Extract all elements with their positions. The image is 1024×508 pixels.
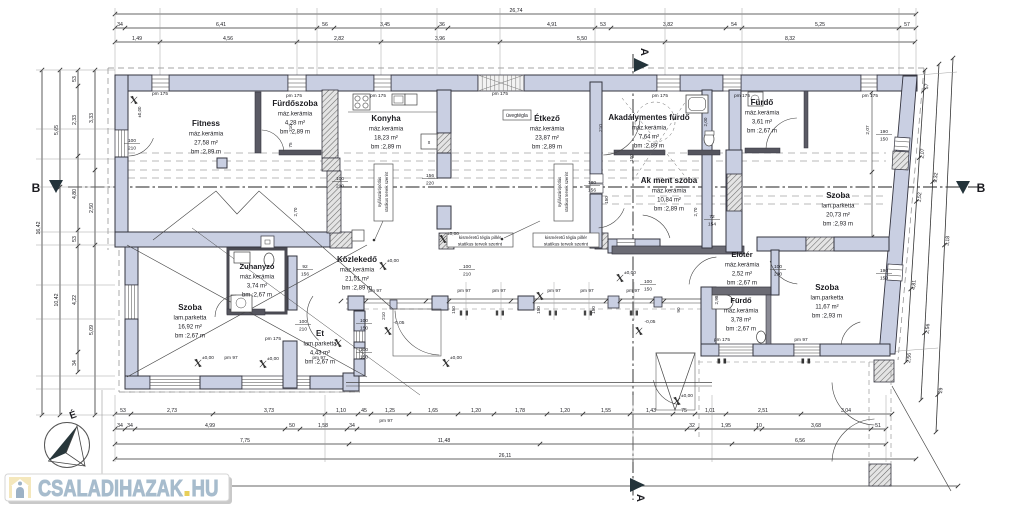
svg-text:210: 210 [381, 312, 386, 320]
svg-text:1,58: 1,58 [318, 423, 328, 429]
svg-text:34: 34 [72, 360, 78, 366]
svg-text:150: 150 [880, 276, 888, 282]
svg-text:kisméretű tégla pillér: kisméretű tégla pillér [545, 235, 588, 240]
svg-text:pm 175: pm 175 [286, 93, 302, 99]
svg-text:pm 97: pm 97 [379, 418, 393, 424]
svg-text:75: 75 [288, 142, 293, 148]
svg-text:18,23 m²: 18,23 m² [374, 136, 398, 142]
svg-text:nyílászárópótlás: nyílászárópótlás [377, 177, 382, 207]
svg-text:A: A [634, 494, 646, 502]
svg-text:pm 175: pm 175 [492, 91, 508, 97]
svg-text:Szoba: Szoba [815, 283, 839, 292]
svg-text:210: 210 [288, 124, 293, 132]
svg-text:190: 190 [880, 268, 888, 274]
svg-text:1,65: 1,65 [428, 408, 438, 414]
svg-text:1,10: 1,10 [336, 408, 346, 414]
svg-text:16,42: 16,42 [36, 221, 42, 234]
svg-text:2,70: 2,70 [293, 207, 298, 216]
svg-text:pm 175: pm 175 [265, 336, 281, 342]
svg-text:bm :2,89 m: bm :2,89 m [371, 145, 401, 151]
svg-text:3,74 m²: 3,74 m² [247, 284, 267, 290]
svg-text:Ak ment szoba: Ak ment szoba [641, 176, 698, 185]
svg-text:150: 150 [536, 306, 541, 314]
svg-text:3,82: 3,82 [663, 22, 673, 28]
svg-text:27,58 m²: 27,58 m² [194, 141, 218, 147]
svg-text:150: 150 [360, 355, 368, 361]
svg-text:máz.kerámia: máz.kerámia [724, 309, 759, 315]
svg-text:pm 97: pm 97 [312, 355, 326, 361]
svg-text:pm 97: pm 97 [547, 288, 561, 294]
svg-text:100: 100 [774, 264, 782, 270]
svg-text:bm :2,89 m: bm :2,89 m [191, 150, 221, 156]
svg-text:3,68: 3,68 [811, 423, 821, 429]
svg-text:26,11: 26,11 [499, 453, 512, 459]
svg-text:±0,00: ±0,00 [447, 231, 459, 237]
svg-text:pm 175: pm 175 [862, 93, 878, 99]
svg-text:34: 34 [127, 423, 133, 429]
svg-text:54: 54 [731, 22, 737, 28]
svg-text:4,22: 4,22 [72, 295, 78, 305]
svg-text:statikus tervek szerint: statikus tervek szerint [544, 242, 589, 247]
svg-text:1,49: 1,49 [132, 36, 142, 42]
svg-text:20,73 m²: 20,73 m² [826, 213, 850, 219]
svg-text:Szoba: Szoba [178, 303, 202, 312]
svg-text:Konyha: Konyha [371, 114, 401, 123]
svg-text:bm :2,93 m: bm :2,93 m [812, 314, 842, 320]
svg-text:220: 220 [426, 181, 434, 187]
svg-text:pm 97: pm 97 [580, 288, 594, 294]
svg-text:±0,00: ±0,00 [624, 270, 636, 276]
svg-text:180: 180 [588, 180, 596, 186]
svg-text:1,52: 1,52 [917, 192, 924, 203]
svg-text:100: 100 [360, 347, 368, 353]
svg-text:2,00: 2,00 [703, 117, 708, 126]
svg-text:10,84 m²: 10,84 m² [657, 198, 681, 204]
svg-text:1,25: 1,25 [385, 408, 395, 414]
svg-text:7,75: 7,75 [240, 438, 250, 444]
svg-text:-0,05: -0,05 [394, 320, 405, 326]
svg-text:36: 36 [439, 22, 445, 28]
svg-text:21,51 m²: 21,51 m² [345, 277, 369, 283]
svg-text:156: 156 [426, 173, 434, 179]
svg-text:57: 57 [904, 22, 910, 28]
svg-text:4,99: 4,99 [205, 423, 215, 429]
svg-text:máz.kerámia: máz.kerámia [278, 112, 313, 118]
svg-text:statikus tervek szerint: statikus tervek szerint [458, 242, 503, 247]
svg-text:±0,00: ±0,00 [202, 355, 214, 361]
svg-text:bm :2,67 m: bm :2,67 m [747, 129, 777, 135]
svg-text:210: 210 [128, 146, 136, 152]
svg-text:190: 190 [880, 129, 888, 135]
svg-text:HU: HU [192, 475, 219, 501]
svg-text:100: 100 [299, 319, 307, 325]
svg-text:150: 150 [644, 287, 652, 293]
svg-text:±0,00: ±0,00 [387, 258, 399, 264]
svg-text:bm :2,93 m: bm :2,93 m [823, 222, 853, 228]
svg-text:1,01: 1,01 [705, 408, 715, 414]
svg-text:72: 72 [709, 214, 715, 220]
svg-text:pm 97: pm 97 [626, 288, 640, 294]
svg-text:Étkező: Étkező [534, 114, 560, 123]
svg-text:210: 210 [336, 184, 344, 190]
svg-text:máz.kerámia: máz.kerámia [530, 127, 565, 133]
svg-text:51: 51 [875, 423, 881, 429]
svg-text:bm :2,89 m: bm :2,89 m [654, 207, 684, 213]
svg-text:150: 150 [880, 137, 888, 143]
svg-text:2,07: 2,07 [865, 125, 871, 135]
svg-text:lam.parketta: lam.parketta [173, 316, 207, 322]
svg-text:210: 210 [774, 272, 782, 278]
svg-text:1,20: 1,20 [560, 408, 570, 414]
svg-text:Fitness: Fitness [192, 119, 221, 128]
svg-text:B: B [32, 181, 41, 195]
svg-text:34: 34 [117, 22, 123, 28]
svg-text:45: 45 [361, 408, 367, 414]
svg-text:4,56: 4,56 [223, 36, 233, 42]
svg-text:pm 97: pm 97 [368, 288, 382, 294]
svg-text:2,51: 2,51 [758, 408, 768, 414]
svg-text:11,48: 11,48 [438, 438, 451, 444]
svg-text:156: 156 [301, 272, 309, 278]
svg-text:100: 100 [336, 176, 344, 182]
svg-text:pm 175: pm 175 [714, 337, 730, 343]
svg-text:Akadálymentes fürdő: Akadálymentes fürdő [608, 113, 689, 122]
svg-text:pm 175: pm 175 [152, 91, 168, 97]
svg-text:-0,05: -0,05 [645, 319, 656, 325]
svg-text:bm :2,89 m: bm :2,89 m [634, 144, 664, 150]
svg-text:32: 32 [689, 423, 695, 429]
svg-text:53: 53 [72, 76, 78, 82]
svg-text:bm :2,89 m: bm :2,89 m [532, 145, 562, 151]
svg-text:8,32: 8,32 [785, 36, 795, 42]
svg-text:150: 150 [451, 306, 456, 314]
svg-text:34: 34 [349, 423, 355, 429]
svg-text:7,64 m²: 7,64 m² [639, 135, 659, 141]
svg-text:10: 10 [756, 423, 762, 429]
svg-text:bm :2,67 m: bm :2,67 m [175, 334, 205, 340]
svg-text:máz.kerámia: máz.kerámia [652, 189, 687, 195]
svg-text:100: 100 [360, 318, 368, 324]
svg-text:3,61 m²: 3,61 m² [752, 120, 772, 126]
svg-text:2,98: 2,98 [714, 295, 719, 304]
svg-text:CSALADIHAZAK: CSALADIHAZAK [38, 475, 183, 501]
svg-text:kisméretű tégla pillér: kisméretű tégla pillér [459, 235, 502, 240]
svg-text:210: 210 [299, 327, 307, 333]
svg-text:máz.kerámia: máz.kerámia [632, 126, 667, 132]
svg-text:4,80: 4,80 [72, 189, 78, 199]
svg-text:pm 97: pm 97 [492, 288, 506, 294]
svg-text:nyílászárópótlás: nyílászárópótlás [557, 177, 562, 207]
svg-text:máz.kerámia: máz.kerámia [745, 111, 780, 117]
svg-text:±0,00: ±0,00 [267, 356, 279, 362]
svg-text:5,50: 5,50 [577, 36, 587, 42]
svg-text:154: 154 [708, 222, 716, 228]
svg-text:pm 175: pm 175 [652, 93, 668, 99]
svg-text:máz.kerámia: máz.kerámia [340, 268, 375, 274]
svg-text:5,09: 5,09 [89, 325, 95, 335]
svg-text:bm :2,67 m: bm :2,67 m [726, 327, 756, 333]
svg-text:máz.kerámia: máz.kerámia [369, 127, 404, 133]
svg-text:9,32: 9,32 [933, 172, 940, 183]
svg-text:10,42: 10,42 [54, 293, 60, 306]
svg-text:±0,00: ±0,00 [450, 355, 462, 361]
svg-text:1,95: 1,95 [721, 423, 731, 429]
svg-text:lam.parketta: lam.parketta [810, 296, 844, 302]
svg-text:pm 175: pm 175 [370, 93, 386, 99]
svg-text:2,50: 2,50 [89, 203, 95, 213]
svg-text:Szoba: Szoba [826, 191, 850, 200]
svg-text:Előtér: Előtér [731, 250, 752, 259]
svg-text:2,33: 2,33 [72, 115, 78, 125]
svg-text:Fürdő: Fürdő [730, 296, 752, 305]
svg-text:±0,00: ±0,00 [681, 393, 693, 399]
svg-text:100: 100 [629, 154, 634, 162]
svg-text:100: 100 [128, 138, 136, 144]
svg-text:3,78 m²: 3,78 m² [731, 318, 751, 324]
svg-text:100: 100 [463, 264, 471, 270]
svg-text:Fürdőszoba: Fürdőszoba [272, 99, 318, 108]
svg-text:üvegtégla: üvegtégla [506, 113, 528, 119]
svg-text:máz.kerámia: máz.kerámia [189, 132, 224, 138]
svg-text:2,82: 2,82 [334, 36, 344, 42]
svg-text:3,96: 3,96 [435, 36, 445, 42]
svg-text:26,74: 26,74 [510, 8, 523, 14]
svg-text:75: 75 [681, 408, 687, 414]
svg-text:lam.parketta: lam.parketta [821, 204, 855, 210]
svg-text:53: 53 [600, 22, 606, 28]
svg-text:1,20: 1,20 [471, 408, 481, 414]
svg-text:150: 150 [604, 196, 609, 204]
svg-text:2,73: 2,73 [167, 408, 177, 414]
svg-text:Közlekedő: Közlekedő [337, 255, 377, 264]
svg-text:Zuhanyzó: Zuhanyzó [240, 262, 275, 271]
svg-text:pm 97: pm 97 [794, 337, 808, 343]
svg-text:6,56: 6,56 [795, 438, 805, 444]
svg-text:2,56: 2,56 [906, 353, 913, 364]
svg-text:210: 210 [598, 124, 603, 132]
svg-text:statikus tervek szerint: statikus tervek szerint [564, 171, 569, 212]
svg-text:bm :2,67 m: bm :2,67 m [242, 293, 272, 299]
svg-text:pm 97: pm 97 [457, 288, 471, 294]
svg-text:pm 97: pm 97 [224, 355, 238, 361]
svg-text:23,87 m²: 23,87 m² [535, 136, 559, 142]
svg-text:34: 34 [117, 423, 123, 429]
svg-text:6,41: 6,41 [216, 22, 226, 28]
svg-text:2,52 m²: 2,52 m² [732, 272, 752, 278]
svg-text:16,92 m²: 16,92 m² [178, 325, 202, 331]
svg-text:4,91: 4,91 [547, 22, 557, 28]
svg-text:±0,00: ±0,00 [137, 106, 142, 118]
svg-text:máz.kerámia: máz.kerámia [725, 263, 760, 269]
svg-text:3,18: 3,18 [945, 236, 952, 247]
svg-text:2,56: 2,56 [925, 323, 932, 334]
svg-text:3,73: 3,73 [264, 408, 274, 414]
svg-text:bm :2,89 m: bm :2,89 m [280, 130, 310, 136]
svg-text:5,65: 5,65 [54, 125, 60, 135]
svg-text:90: 90 [676, 307, 681, 313]
svg-text:Et: Et [316, 329, 324, 338]
svg-text:150: 150 [360, 326, 368, 332]
svg-text:57: 57 [924, 83, 930, 89]
svg-text:1,55: 1,55 [601, 408, 611, 414]
svg-text:1,43: 1,43 [646, 408, 656, 414]
svg-text:53: 53 [72, 236, 78, 242]
svg-text:3,45: 3,45 [380, 22, 390, 28]
svg-text:5,25: 5,25 [815, 22, 825, 28]
svg-text:4,81: 4,81 [911, 280, 918, 291]
svg-text:A: A [638, 48, 650, 56]
svg-text:100: 100 [644, 279, 652, 285]
svg-text:3,33: 3,33 [89, 113, 95, 123]
svg-text:statikus tervek szerint: statikus tervek szerint [384, 171, 389, 212]
svg-text:lam.parketta: lam.parketta [303, 342, 337, 348]
svg-text:Fürdő: Fürdő [751, 98, 774, 107]
svg-text:50: 50 [289, 423, 295, 429]
svg-text:bm :2,67 m: bm :2,67 m [727, 281, 757, 287]
svg-text:máz.kerámia: máz.kerámia [240, 275, 275, 281]
svg-text:56: 56 [322, 22, 328, 28]
svg-text:B: B [977, 181, 986, 195]
svg-text:53: 53 [120, 408, 126, 414]
svg-text:2,70: 2,70 [693, 207, 698, 216]
svg-text:150: 150 [591, 306, 596, 314]
svg-text:pm 175: pm 175 [734, 93, 750, 99]
svg-text:11,67 m²: 11,67 m² [815, 305, 838, 311]
svg-text:2,07: 2,07 [919, 148, 926, 159]
svg-text:92: 92 [302, 264, 308, 270]
svg-text:29: 29 [938, 387, 944, 393]
svg-text:1,78: 1,78 [515, 408, 525, 414]
svg-text:210: 210 [463, 272, 471, 278]
svg-text:156: 156 [588, 188, 596, 194]
